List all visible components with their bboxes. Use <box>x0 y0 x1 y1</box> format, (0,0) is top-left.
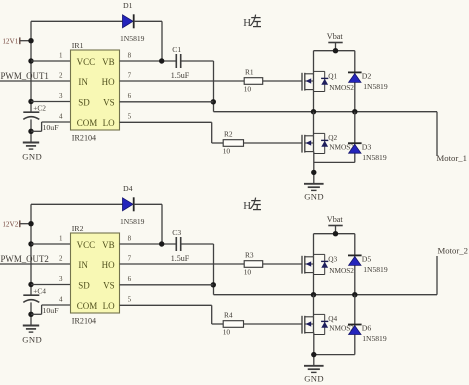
svg-text:LO: LO <box>103 301 115 311</box>
svg-text:10uF: 10uF <box>43 123 60 132</box>
svg-text:D1: D1 <box>123 1 133 10</box>
wire 12V top rail <box>31 203 123 205</box>
svg-text:5: 5 <box>128 296 132 304</box>
svg-text:10: 10 <box>223 328 231 337</box>
svg-text:GND: GND <box>22 334 42 344</box>
wire pin7 HO <box>120 80 245 82</box>
svg-text:R2: R2 <box>224 130 233 139</box>
svg-text:2: 2 <box>59 72 63 80</box>
svg-text:10uF: 10uF <box>43 306 60 315</box>
wire Vbat rail <box>314 233 355 235</box>
svg-text:1N5819: 1N5819 <box>363 82 388 91</box>
junction <box>211 99 216 104</box>
svg-text:D2: D2 <box>362 71 372 80</box>
svg-text:H: H <box>243 17 251 29</box>
wire diode to VB node <box>134 20 162 22</box>
svg-text:7: 7 <box>128 255 132 263</box>
wire LO drop <box>211 305 213 324</box>
svg-text:HO: HO <box>102 77 115 87</box>
svg-text:4: 4 <box>59 113 63 121</box>
wire LO to gate resistor <box>212 323 224 325</box>
svg-text:COM: COM <box>77 301 98 311</box>
svg-text:SD: SD <box>78 280 90 290</box>
svg-text:Q3: Q3 <box>328 255 337 264</box>
svg-text:R4: R4 <box>224 311 233 320</box>
wire to motor terminal <box>436 112 438 156</box>
svg-text:1.5uF: 1.5uF <box>171 71 190 80</box>
svg-text:VB: VB <box>102 57 115 67</box>
wire D3 branch <box>354 112 356 163</box>
junction <box>28 129 33 134</box>
section title H-bridge <box>243 15 261 29</box>
wire 12V vertical rail <box>30 21 32 112</box>
wire D2 branch <box>354 51 356 112</box>
wire pin4 COM to ground rail <box>31 130 42 132</box>
junction <box>159 241 164 246</box>
svg-text:1: 1 <box>59 235 63 243</box>
svg-text:+C2: +C2 <box>33 104 46 113</box>
resistor R4 <box>223 321 243 328</box>
wire Q drain high <box>313 51 315 74</box>
wire cap to ground node <box>30 302 32 325</box>
IC IR1 IR2104 body <box>71 50 120 130</box>
wire VS midpoint rail <box>214 111 438 113</box>
junction <box>28 282 33 287</box>
svg-text:1.5uF: 1.5uF <box>171 254 190 263</box>
capacitor C2 <box>23 112 39 119</box>
svg-text:IR2104: IR2104 <box>72 133 96 142</box>
svg-text:GND: GND <box>22 151 42 161</box>
wire LO to gate resistor <box>212 142 224 144</box>
svg-text:1N5819: 1N5819 <box>120 34 145 43</box>
wire pin3 SD <box>31 101 71 103</box>
diode D1 <box>123 14 134 28</box>
junction <box>352 109 357 114</box>
svg-text:1N5819: 1N5819 <box>362 153 387 162</box>
transistor Q3 <box>302 254 328 274</box>
diode D5 <box>348 255 362 265</box>
wire pin3 SD <box>31 284 71 286</box>
wire VB node drop <box>161 21 163 61</box>
ground <box>23 326 39 333</box>
wire VB to bootstrap corner <box>181 243 214 245</box>
ground <box>23 143 39 150</box>
wire Q source high <box>313 90 315 112</box>
wire LO drop <box>211 122 213 143</box>
wire Q drain low <box>313 112 315 136</box>
wire diode to VB node <box>134 203 162 205</box>
svg-text:Motor_2: Motor_2 <box>438 246 468 256</box>
wire pin4 COM drop <box>41 305 43 314</box>
svg-text:C3: C3 <box>172 228 181 237</box>
wire 12V vertical rail <box>30 204 32 295</box>
junction <box>28 99 33 104</box>
ground <box>304 184 324 191</box>
IC IR2 IR2104 body <box>71 233 120 313</box>
wire pin1 VCC <box>31 60 71 62</box>
svg-text:D5: D5 <box>362 254 372 263</box>
svg-text:Q1: Q1 <box>328 72 337 81</box>
wire gate low side <box>244 142 303 144</box>
svg-text:Q2: Q2 <box>328 133 337 142</box>
svg-text:R1: R1 <box>245 68 254 77</box>
svg-text:6: 6 <box>128 275 132 283</box>
svg-text:D6: D6 <box>362 324 372 333</box>
diode D4 <box>123 197 134 211</box>
wire pin5 LO <box>120 121 212 123</box>
wire source to diode rail <box>314 354 355 356</box>
wire Q drain high <box>313 234 315 257</box>
svg-text:Q4: Q4 <box>328 314 337 323</box>
capacitor C4 <box>23 295 39 302</box>
svg-text:VS: VS <box>103 97 115 107</box>
svg-text:1N5819: 1N5819 <box>362 334 387 343</box>
svg-text:PWM_OUT2: PWM_OUT2 <box>1 254 49 264</box>
svg-text:NMOS2: NMOS2 <box>329 266 354 275</box>
power Vbat <box>328 43 342 51</box>
junction <box>311 352 316 357</box>
svg-text:H: H <box>243 200 251 212</box>
wire source to diode rail <box>314 161 355 163</box>
svg-text:COM: COM <box>77 118 98 128</box>
svg-text:12V1: 12V1 <box>2 37 18 45</box>
power port 12V1 <box>20 37 31 44</box>
wire Q source low <box>313 152 315 184</box>
svg-text:IR2: IR2 <box>72 224 84 233</box>
svg-text:D4: D4 <box>123 184 133 193</box>
svg-text:8: 8 <box>128 235 132 243</box>
junction <box>28 58 33 63</box>
wire pin4 COM drop <box>41 122 43 131</box>
svg-text:3: 3 <box>59 275 63 283</box>
svg-text:NMOS2: NMOS2 <box>329 83 354 92</box>
wire pin8 VB <box>120 243 177 245</box>
junction <box>28 221 33 226</box>
svg-text:IR1: IR1 <box>72 41 84 50</box>
transistor Q2 <box>302 133 328 153</box>
svg-text:Vbat: Vbat <box>327 215 344 224</box>
wire pin4 COM to ground rail <box>31 313 42 315</box>
wire D5 branch <box>354 234 356 295</box>
svg-text:VB: VB <box>102 240 115 250</box>
svg-text:SD: SD <box>78 97 90 107</box>
svg-text:3: 3 <box>59 92 63 100</box>
junction <box>311 109 316 114</box>
svg-text:1: 1 <box>59 52 63 60</box>
wire Q drain low <box>313 295 315 317</box>
wire VB to bootstrap corner <box>181 60 214 62</box>
svg-text:4: 4 <box>59 296 63 304</box>
transistor Q4 <box>302 314 328 334</box>
svg-text:IN: IN <box>78 77 88 87</box>
svg-text:LO: LO <box>103 118 115 128</box>
transistor Q1 <box>302 71 328 91</box>
svg-text:C1: C1 <box>172 45 181 54</box>
svg-text:6: 6 <box>128 92 132 100</box>
junction <box>28 312 33 317</box>
junction <box>159 58 164 63</box>
capacitor C3 <box>176 237 180 251</box>
junction <box>311 292 316 297</box>
svg-text:5: 5 <box>128 113 132 121</box>
svg-text:1N5819: 1N5819 <box>120 217 145 226</box>
capacitor C1 <box>176 54 180 68</box>
svg-text:IR2104: IR2104 <box>72 316 96 325</box>
wire Vbat rail <box>314 50 355 52</box>
wire pin7 HO <box>120 263 245 265</box>
svg-text:PWM_OUT1: PWM_OUT1 <box>1 71 49 81</box>
svg-text:VCC: VCC <box>77 57 96 67</box>
junction <box>211 282 216 287</box>
wire bootstrap vertical <box>213 244 215 295</box>
svg-text:+C4: +C4 <box>33 287 46 296</box>
svg-text:10: 10 <box>244 85 252 94</box>
wire pin4 COM horizontal <box>42 304 71 306</box>
wire VB node drop <box>161 204 163 244</box>
resistor R1 <box>244 78 263 85</box>
svg-text:D3: D3 <box>362 142 372 151</box>
junction <box>333 231 338 236</box>
wire pin4 COM horizontal <box>42 121 71 123</box>
wire 12V top rail <box>31 20 123 22</box>
svg-text:8: 8 <box>128 52 132 60</box>
wire pin2 IN input <box>0 263 71 265</box>
wire cap to ground node <box>30 119 32 142</box>
wire D6 branch <box>354 295 356 355</box>
svg-text:7: 7 <box>128 72 132 80</box>
resistor R3 <box>244 261 263 268</box>
wire VS midpoint rail <box>214 294 438 296</box>
wire Q source low <box>313 333 315 366</box>
diode D2 <box>348 72 362 82</box>
svg-text:1N5819: 1N5819 <box>363 265 388 274</box>
svg-text:10: 10 <box>244 268 252 277</box>
wire bootstrap vertical <box>213 61 215 112</box>
ground <box>304 366 324 373</box>
svg-text:HO: HO <box>102 260 115 270</box>
diode D6 <box>348 325 362 335</box>
section title H-bridge <box>243 198 261 212</box>
svg-text:VS: VS <box>103 280 115 290</box>
wire pin2 IN input <box>0 80 71 82</box>
wire pin1 VCC <box>31 243 71 245</box>
wire pin5 LO <box>120 304 212 306</box>
power port 12V2 <box>20 220 31 227</box>
svg-text:GND: GND <box>304 373 324 383</box>
junction <box>352 292 357 297</box>
svg-text:Motor_1: Motor_1 <box>437 153 467 163</box>
svg-text:Vbat: Vbat <box>327 32 344 41</box>
wire to motor terminal <box>436 256 438 295</box>
svg-text:IN: IN <box>78 260 88 270</box>
svg-text:2: 2 <box>59 255 63 263</box>
junction <box>28 241 33 246</box>
svg-text:R3: R3 <box>245 251 254 260</box>
svg-text:12V2: 12V2 <box>2 220 18 228</box>
wire pin6 VS <box>120 284 214 286</box>
wire gate high side <box>263 80 302 82</box>
svg-text:VCC: VCC <box>77 240 96 250</box>
resistor R2 <box>223 140 243 147</box>
wire Q source high <box>313 273 315 295</box>
wire gate high side <box>263 263 302 265</box>
svg-text:GND: GND <box>304 191 324 201</box>
junction <box>311 170 316 175</box>
wire pin6 VS <box>120 101 214 103</box>
wire pin8 VB <box>120 60 177 62</box>
wire gate low side <box>244 323 303 325</box>
junction <box>333 48 338 53</box>
diode D3 <box>348 143 362 153</box>
power Vbat <box>328 226 342 234</box>
junction <box>28 38 33 43</box>
svg-text:10: 10 <box>223 147 231 156</box>
